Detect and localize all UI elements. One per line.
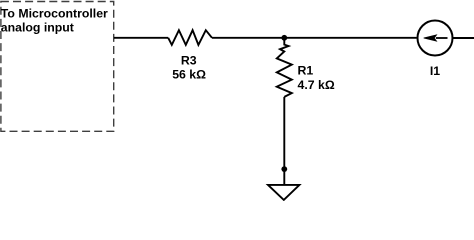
- resistor R3 (zigzag): [168, 30, 212, 45]
- svg-text:56 kΩ: 56 kΩ: [172, 68, 206, 82]
- current source arrow (pointing left): [436, 37, 448, 39]
- node dot above ground: [281, 166, 287, 172]
- svg-text:R3: R3: [181, 54, 197, 68]
- svg-text:analog input: analog input: [1, 21, 74, 35]
- wire: I1 to right edge: [453, 37, 474, 39]
- node junction dot at R1 top: [281, 35, 287, 41]
- annotation box (dashed) "To Microcontroller analog input": [1, 2, 114, 132]
- resistor R1 (vertical zigzag): [277, 38, 292, 97]
- svg-text:I1: I1: [430, 64, 440, 78]
- wire: box to R3: [114, 37, 168, 39]
- current source I1 (circle): [418, 21, 453, 56]
- wire: R3 to current source I1: [212, 37, 417, 39]
- wire: R1 to ground: [283, 97, 285, 185]
- svg-text:4.7 kΩ: 4.7 kΩ: [298, 78, 335, 92]
- ground symbol (open triangle): [268, 185, 299, 200]
- svg-text:R1: R1: [298, 63, 314, 77]
- svg-text:To Microcontroller: To Microcontroller: [1, 6, 108, 20]
